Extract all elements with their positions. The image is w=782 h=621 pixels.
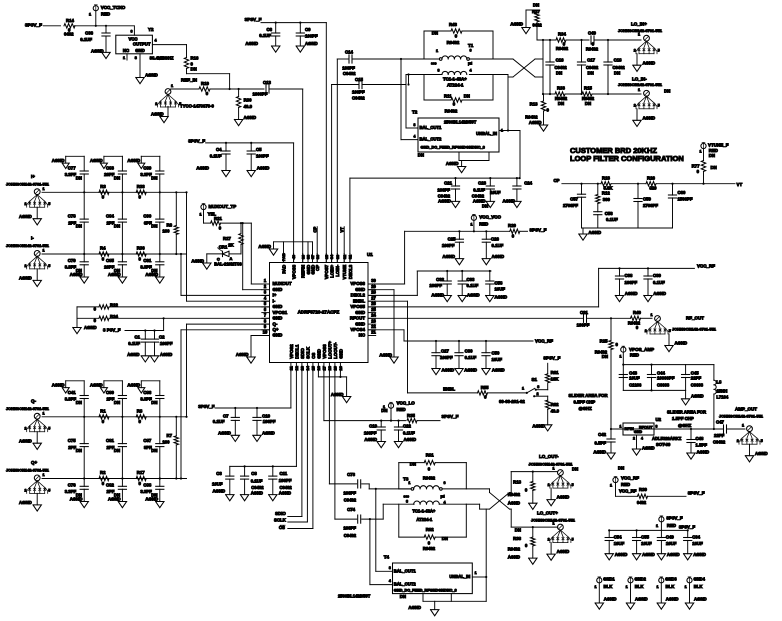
svg-text:28: 28 (371, 290, 376, 295)
svg-text:R11: R11 (444, 93, 452, 98)
svg-text:GND: GND (135, 48, 145, 53)
svg-text:1: 1 (620, 424, 622, 428)
svg-text:2700PF: 2700PF (643, 203, 658, 208)
svg-text:VCC_RF: VCC_RF (535, 338, 553, 343)
svg-text:GND: GND (273, 304, 283, 309)
svg-text:S1: S1 (532, 377, 538, 382)
svg-text:AGND: AGND (331, 392, 344, 397)
svg-text:AGND: AGND (625, 291, 638, 296)
svg-text:C26: C26 (491, 237, 499, 242)
svg-text:100PF: 100PF (305, 34, 318, 39)
svg-text:ENBL: ENBL (353, 298, 365, 303)
svg-text:AT224-1: AT224-1 (416, 517, 432, 522)
svg-text:SDIO: SDIO (275, 511, 286, 516)
svg-text:SLIDER AREA FOR: SLIDER AREA FOR (667, 410, 707, 415)
svg-text:25: 25 (371, 307, 376, 312)
svg-text:VPOS3: VPOS3 (322, 344, 327, 359)
svg-text:JOHNSON142-0701-551: JOHNSON142-0701-551 (618, 82, 663, 87)
svg-text:5: 5 (669, 329, 671, 333)
svg-text:JOHNSON142-0701-551: JOHNSON142-0701-551 (6, 469, 50, 473)
svg-text:DN: DN (515, 528, 521, 533)
svg-text:GND: GND (273, 333, 283, 338)
svg-text:C30: C30 (465, 349, 473, 354)
svg-text:DN: DN (76, 224, 82, 229)
svg-text:R3: R3 (100, 184, 106, 189)
svg-text:SCLK: SCLK (305, 346, 310, 359)
svg-text:TC1-1-43A+: TC1-1-43A+ (443, 77, 467, 82)
svg-text:R55: R55 (481, 385, 489, 390)
svg-text:C40: C40 (588, 31, 596, 36)
svg-text:VCC_RF: VCC_RF (619, 489, 637, 494)
svg-text:NC: NC (359, 333, 366, 338)
svg-text:C41: C41 (68, 390, 76, 395)
svg-text:RED: RED (101, 11, 110, 16)
svg-text:C23: C23 (478, 181, 486, 186)
svg-text:1000PF: 1000PF (252, 92, 267, 97)
svg-text:C0402: C0402 (344, 533, 357, 538)
svg-text:AGND: AGND (615, 552, 628, 557)
svg-text:VPOS7: VPOS7 (324, 264, 329, 279)
svg-text:C34: C34 (692, 535, 700, 540)
svg-text:AGND: AGND (245, 41, 258, 46)
svg-text:C25: C25 (448, 237, 456, 242)
svg-text:DECL2: DECL2 (351, 293, 366, 298)
svg-text:1: 1 (552, 466, 554, 470)
svg-text:1: 1 (650, 313, 652, 317)
svg-text:2: 2 (634, 49, 636, 53)
svg-text:0.1UF: 0.1UF (80, 37, 92, 42)
svg-text:100PF: 100PF (160, 341, 173, 346)
svg-text:AGND: AGND (642, 446, 655, 451)
svg-text:17: 17 (322, 366, 327, 370)
svg-text:REF_IN: REF_IN (181, 78, 197, 83)
svg-text:0402: 0402 (533, 23, 543, 28)
svg-text:1: 1 (199, 212, 201, 216)
svg-text:C59: C59 (643, 197, 651, 202)
svg-text:0.1UF: 0.1UF (492, 243, 504, 248)
svg-text:1: 1 (619, 354, 621, 358)
svg-text:R36: R36 (137, 246, 145, 251)
svg-text:GND_DC_FEED_RFGNDGNDNC_6: GND_DC_FEED_RFGNDGNDNC_6 (421, 145, 486, 150)
svg-text:C73: C73 (347, 472, 355, 477)
svg-text:22: 22 (371, 324, 376, 329)
svg-text:SLIDER AREA FOR: SLIDER AREA FOR (569, 393, 609, 398)
svg-text:DN: DN (151, 448, 157, 453)
svg-text:4: 4 (389, 579, 391, 583)
svg-text:AGND: AGND (604, 597, 617, 602)
svg-text:C19: C19 (369, 424, 377, 429)
svg-text:BAL-210MT86: BAL-210MT86 (214, 261, 242, 266)
svg-text:C91: C91 (143, 258, 151, 263)
svg-text:0.5PF: 0.5PF (595, 441, 607, 446)
svg-text:AGND: AGND (467, 292, 480, 297)
svg-text:R7: R7 (167, 433, 173, 438)
svg-text:MUXOUT_TP: MUXOUT_TP (209, 204, 237, 209)
svg-text:2: 2 (24, 264, 26, 268)
svg-text:20: 20 (338, 366, 343, 370)
svg-text:BAL_OUT2: BAL_OUT2 (420, 137, 443, 142)
svg-text:GND: GND (338, 349, 343, 359)
svg-text:C14: C14 (345, 49, 353, 54)
svg-text:R18: R18 (513, 480, 521, 485)
svg-text:@GHZ: @GHZ (579, 406, 593, 411)
svg-text:C58: C58 (495, 280, 503, 285)
svg-text:AGND: AGND (244, 115, 257, 120)
svg-text:C0402: C0402 (344, 498, 357, 503)
svg-text:3: 3 (437, 68, 439, 72)
svg-text:09-03-201-02: 09-03-201-02 (499, 399, 525, 404)
svg-text:DN: DN (558, 101, 564, 106)
svg-text:1: 1 (656, 585, 658, 589)
svg-text:VPOS1: VPOS1 (273, 310, 288, 315)
svg-text:22PF: 22PF (714, 433, 725, 438)
svg-text:10UF: 10UF (490, 190, 501, 195)
svg-text:SOT-89: SOT-89 (656, 442, 671, 447)
svg-text:100PF: 100PF (256, 154, 269, 159)
svg-text:C33: C33 (467, 277, 475, 282)
svg-text:DN: DN (618, 466, 624, 471)
svg-text:5: 5 (48, 427, 50, 431)
svg-text:AGND: AGND (675, 341, 688, 346)
svg-text:1: 1 (475, 571, 477, 575)
svg-text:AGND: AGND (643, 115, 656, 120)
svg-text:38.4MEGHZ: 38.4MEGHZ (150, 55, 174, 60)
svg-text:SDIO: SDIO (300, 348, 305, 359)
svg-text:1: 1 (742, 423, 744, 427)
svg-text:DN: DN (76, 448, 82, 453)
svg-text:DN: DN (442, 536, 448, 541)
svg-text:LOOUT-: LOOUT- (333, 342, 338, 359)
svg-text:UNBAL_IN: UNBAL_IN (476, 131, 497, 136)
svg-text:LOOUT+: LOOUT+ (327, 341, 332, 359)
svg-text:0.1UF: 0.1UF (259, 33, 271, 38)
svg-text:AGND: AGND (19, 438, 32, 443)
svg-text:1: 1 (610, 483, 612, 487)
svg-text:R0402: R0402 (556, 46, 569, 51)
svg-text:C56: C56 (605, 211, 613, 216)
svg-text:VCC_VCO: VCC_VCO (479, 215, 501, 220)
svg-text:C0402: C0402 (251, 485, 264, 490)
svg-text:LOOP FILTER CONFIGURATION: LOOP FILTER CONFIGURATION (570, 154, 684, 163)
svg-text:DN: DN (151, 175, 157, 180)
svg-text:3P3V_F: 3P3V_F (198, 404, 215, 409)
svg-text:UNBAL_IN: UNBAL_IN (449, 574, 470, 579)
svg-text:100PF: 100PF (343, 490, 356, 495)
svg-text:49.9: 49.9 (244, 104, 253, 109)
svg-text:R23: R23 (602, 175, 610, 180)
svg-text:AGND: AGND (697, 449, 710, 454)
svg-text:RED: RED (667, 523, 676, 528)
svg-text:RED: RED (630, 353, 639, 358)
svg-text:R0402: R0402 (508, 492, 521, 497)
svg-text:DN: DN (114, 400, 120, 405)
svg-text:3: 3 (135, 56, 137, 60)
svg-text:1: 1 (470, 222, 472, 226)
svg-text:AGND: AGND (694, 597, 707, 602)
svg-text:3P3V_F: 3P3V_F (530, 228, 547, 233)
svg-text:AT224-1: AT224-1 (447, 83, 464, 88)
svg-text:1: 1 (43, 248, 45, 252)
svg-text:R21: R21 (214, 216, 222, 221)
svg-text:C5: C5 (256, 147, 262, 152)
svg-text:DN: DN (585, 101, 591, 106)
svg-text:AGND: AGND (364, 437, 377, 442)
svg-text:3P3V_F: 3P3V_F (679, 525, 696, 530)
svg-text:C55: C55 (641, 535, 649, 540)
svg-text:AGND: AGND (508, 500, 520, 505)
svg-text:1: 1 (594, 585, 596, 589)
svg-text:C86: C86 (143, 390, 151, 395)
svg-text:AGND: AGND (667, 552, 680, 557)
svg-text:AGND: AGND (557, 549, 570, 554)
svg-text:T1: T1 (468, 43, 474, 48)
svg-text:Q-: Q- (31, 398, 37, 403)
svg-text:T2: T2 (412, 110, 418, 115)
svg-text:2: 2 (633, 436, 635, 440)
svg-text:R35: R35 (407, 413, 415, 418)
svg-text:AGND: AGND (52, 158, 65, 163)
svg-text:0402: 0402 (64, 32, 74, 37)
svg-text:15NH: 15NH (716, 388, 727, 393)
svg-text:2: 2 (24, 427, 26, 431)
svg-text:1: 1 (436, 49, 438, 53)
svg-text:DN: DN (76, 175, 82, 180)
svg-text:C16: C16 (556, 58, 564, 63)
svg-text:C0402: C0402 (713, 440, 726, 445)
svg-text:10UF: 10UF (629, 375, 640, 380)
svg-text:AGND: AGND (218, 430, 231, 435)
svg-text:AGND: AGND (19, 276, 32, 281)
svg-text:AGND: AGND (262, 430, 275, 435)
svg-text:VT: VT (737, 182, 743, 187)
svg-text:RED: RED (397, 407, 406, 412)
svg-text:C79: C79 (68, 258, 76, 263)
svg-text:C4: C4 (216, 147, 222, 152)
svg-text:RED: RED (621, 482, 630, 487)
svg-text:PAD: PAD (281, 265, 286, 274)
svg-text:R34: R34 (558, 31, 566, 36)
svg-text:AGND: AGND (90, 158, 103, 163)
svg-text:DN: DN (76, 400, 82, 405)
svg-text:DN: DN (614, 71, 620, 76)
svg-text:AGND: AGND (503, 198, 516, 203)
svg-text:R33: R33 (137, 184, 145, 189)
svg-text:R25: R25 (600, 339, 608, 344)
svg-text:DN: DN (114, 175, 120, 180)
svg-text:CP: CP (554, 178, 560, 183)
svg-text:GND3: GND3 (665, 577, 677, 582)
svg-text:DN: DN (418, 153, 424, 158)
svg-text:C0402: C0402 (352, 96, 365, 101)
svg-text:2: 2 (737, 439, 739, 443)
svg-text:AGND: AGND (151, 112, 164, 117)
svg-text:0.5PF CHP: 0.5PF CHP (574, 400, 596, 405)
svg-text:C89: C89 (143, 166, 151, 171)
svg-text:C0402: C0402 (586, 65, 599, 70)
svg-text:LO_IN+: LO_IN+ (631, 22, 647, 27)
svg-text:C87: C87 (143, 438, 151, 443)
svg-text:2K: 2K (228, 243, 234, 248)
svg-text:C7: C7 (223, 413, 229, 418)
svg-text:DN: DN (400, 594, 406, 599)
svg-text:RF_OUT: RF_OUT (686, 316, 704, 321)
svg-text:CS: CS (311, 353, 316, 359)
svg-text:AGND: AGND (127, 352, 139, 357)
svg-text:3 P3V_F: 3 P3V_F (103, 328, 121, 333)
svg-text:1: 1 (43, 473, 45, 477)
svg-text:DN: DN (464, 93, 470, 98)
svg-text:GND4: GND4 (694, 577, 706, 582)
svg-text:R13: R13 (530, 102, 538, 107)
svg-text:C13: C13 (263, 80, 271, 85)
svg-text:ENBL: ENBL (443, 387, 455, 392)
svg-text:C18: C18 (614, 58, 622, 63)
svg-text:6: 6 (130, 29, 132, 33)
svg-text:R77: R77 (692, 163, 700, 168)
svg-text:REFIN: REFIN (301, 265, 306, 278)
svg-text:AGND: AGND (145, 72, 158, 77)
svg-text:2: 2 (24, 488, 26, 492)
svg-text:DN: DN (114, 448, 120, 453)
svg-text:R1: R1 (100, 409, 106, 414)
svg-text:100PF: 100PF (429, 283, 442, 288)
svg-text:5: 5 (761, 439, 763, 443)
svg-text:R43: R43 (449, 22, 457, 27)
svg-text:C76: C76 (68, 482, 76, 487)
svg-text:AGND: AGND (510, 22, 523, 27)
svg-text:R6: R6 (167, 223, 173, 228)
svg-text:R22: R22 (110, 303, 118, 308)
svg-text:0402: 0402 (637, 500, 647, 505)
svg-text:TC1-1-43A+: TC1-1-43A+ (412, 509, 435, 514)
svg-text:1.5PF: 1.5PF (696, 442, 708, 447)
svg-text:R61: R61 (551, 370, 559, 375)
svg-text:ADL5320ARKZ: ADL5320ARKZ (652, 436, 682, 441)
svg-text:T4: T4 (384, 554, 390, 559)
svg-text:3P3V_F: 3P3V_F (25, 23, 42, 28)
svg-text:1: 1 (171, 84, 173, 88)
svg-text:24: 24 (371, 312, 376, 317)
svg-text:C11: C11 (280, 471, 288, 476)
svg-text:R81: R81 (426, 452, 434, 457)
svg-text:AGND: AGND (379, 353, 392, 358)
svg-text:3: 3 (656, 424, 658, 428)
svg-text:DN: DN (432, 31, 438, 36)
svg-text:0.1UF: 0.1UF (606, 217, 618, 222)
svg-text:2: 2 (537, 392, 539, 396)
svg-text:C84: C84 (106, 214, 114, 219)
svg-text:100PF: 100PF (279, 478, 292, 483)
svg-text:100PF: 100PF (625, 280, 638, 285)
svg-text:AGND: AGND (442, 254, 455, 259)
svg-text:C77: C77 (68, 166, 76, 171)
svg-text:AGND: AGND (492, 368, 505, 373)
svg-text:LO_OUT-: LO_OUT- (539, 454, 559, 459)
svg-text:C27: C27 (441, 348, 449, 353)
svg-text:GND: GND (316, 349, 321, 359)
svg-text:MUXOUT: MUXOUT (273, 281, 292, 286)
svg-text:AGND: AGND (145, 272, 158, 277)
svg-text:R4: R4 (100, 246, 106, 251)
svg-text:AGND: AGND (305, 41, 318, 46)
svg-text:49.9: 49.9 (551, 409, 560, 414)
svg-text:0.1UF: 0.1UF (213, 419, 225, 424)
svg-text:C60: C60 (678, 190, 686, 195)
svg-text:C39: C39 (653, 273, 661, 278)
svg-text:AGND: AGND (127, 382, 140, 387)
svg-text:C88: C88 (143, 482, 151, 487)
svg-text:AGND: AGND (160, 352, 172, 357)
svg-text:U1: U1 (367, 252, 373, 257)
svg-text:3: 3 (389, 566, 391, 570)
svg-text:AGND: AGND (19, 500, 32, 505)
svg-text:5: 5 (572, 538, 574, 542)
svg-text:LOIN+: LOIN+ (329, 264, 334, 277)
svg-text:2500BL14M050T: 2500BL14M050T (338, 594, 371, 599)
svg-text:C0603: C0603 (691, 382, 704, 387)
svg-text:JOHNSON142-0701-551: JOHNSON142-0701-551 (672, 327, 717, 332)
svg-text:R39: R39 (639, 487, 647, 492)
svg-text:C8: C8 (251, 471, 257, 476)
svg-text:C24: C24 (524, 181, 532, 186)
svg-text:AGND: AGND (666, 597, 679, 602)
svg-text:10000PF: 10000PF (657, 375, 675, 380)
svg-text:C0402: C0402 (280, 485, 293, 490)
svg-text:300: 300 (603, 197, 611, 202)
svg-text:2: 2 (645, 329, 647, 333)
svg-text:GND: GND (355, 287, 365, 292)
svg-text:sec: sec (431, 61, 437, 65)
svg-text:5: 5 (658, 49, 660, 53)
svg-text:0.1UF: 0.1UF (653, 280, 665, 285)
svg-text:10UF: 10UF (666, 541, 677, 546)
svg-text:AGND: AGND (196, 166, 209, 171)
svg-text:JOHNSON142-0701-551: JOHNSON142-0701-551 (719, 414, 764, 419)
svg-text:100: 100 (162, 229, 170, 234)
svg-text:AGND: AGND (145, 497, 158, 502)
svg-text:AGND: AGND (108, 497, 121, 502)
svg-text:LO_OUT+: LO_OUT+ (537, 511, 558, 516)
svg-text:DN: DN (556, 71, 562, 76)
svg-text:3: 3 (414, 123, 416, 127)
svg-text:C2: C2 (159, 335, 165, 340)
svg-text:1: 1 (123, 56, 125, 60)
svg-text:VCC_RF: VCC_RF (621, 476, 639, 481)
svg-text:GND: GND (273, 315, 283, 320)
svg-text:R0402: R0402 (423, 476, 436, 481)
svg-text:100PF: 100PF (343, 526, 356, 531)
svg-text:R16: R16 (191, 56, 199, 61)
svg-text:R0402: R0402 (586, 47, 599, 52)
svg-text:100PF: 100PF (437, 188, 450, 193)
svg-text:RED: RED (479, 221, 488, 226)
svg-text:30: 30 (371, 278, 376, 283)
svg-text:1: 1 (638, 32, 640, 36)
svg-text:L7164: L7164 (716, 394, 728, 399)
svg-text:AGND: AGND (127, 158, 140, 163)
svg-text:R38: R38 (513, 536, 521, 541)
svg-text:JOHNSON142-0701-551: JOHNSON142-0701-551 (618, 28, 663, 33)
svg-text:BAL_OUT2: BAL_OUT2 (394, 582, 417, 587)
svg-text:VTUNE: VTUNE (342, 265, 347, 280)
svg-text:AGND: AGND (508, 555, 520, 560)
svg-text:C21: C21 (444, 181, 452, 186)
svg-text:C90: C90 (143, 214, 151, 219)
svg-text:AMP_OUT: AMP_OUT (735, 407, 757, 412)
svg-text:BAL_OUT1: BAL_OUT1 (420, 125, 443, 130)
svg-text:C0603: C0603 (657, 382, 670, 387)
svg-text:C31: C31 (580, 310, 588, 315)
